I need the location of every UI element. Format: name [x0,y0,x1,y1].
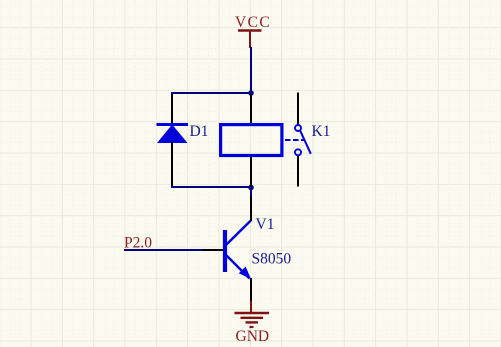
relay K1 switch pin 3 [297,93,299,125]
svg-text:S8050: S8050 [252,251,292,268]
transistor V1 emitter pin [250,278,252,302]
wire P2.0 to base [124,249,203,251]
relay K1 coil pin 2 [250,157,252,188]
diode D1 cathode pin [171,95,173,124]
wire D1 bottom to junction 2 [172,185,252,188]
relay K1 coil pin 1 [250,94,252,124]
junction top [248,90,254,96]
relay K1 switch contacts and blade [295,125,311,155]
svg-text:P2.0: P2.0 [124,235,152,252]
svg-text:V1: V1 [256,216,275,233]
svg-text:VCC: VCC [235,14,271,31]
relay K1 actuator dashed link [285,139,305,141]
diode D1 anode pin [171,142,173,185]
ground [235,301,270,345]
relay K1 switch pin 4 [297,156,299,187]
transistor V1 collector pin [250,196,252,221]
relay K1 coil [221,125,282,156]
wire junction 2 to collector pin [250,188,252,197]
power VCC [235,14,271,48]
svg-text:K1: K1 [312,123,331,140]
wire junction to D1 top [172,93,252,96]
transistor V1 [225,221,251,280]
diode D1 [157,125,189,144]
junction bottom [248,185,254,191]
transistor V1 base pin [202,249,223,251]
svg-text:D1: D1 [190,123,209,140]
wire VCC to junction [250,47,252,93]
svg-text:GND: GND [236,328,270,345]
